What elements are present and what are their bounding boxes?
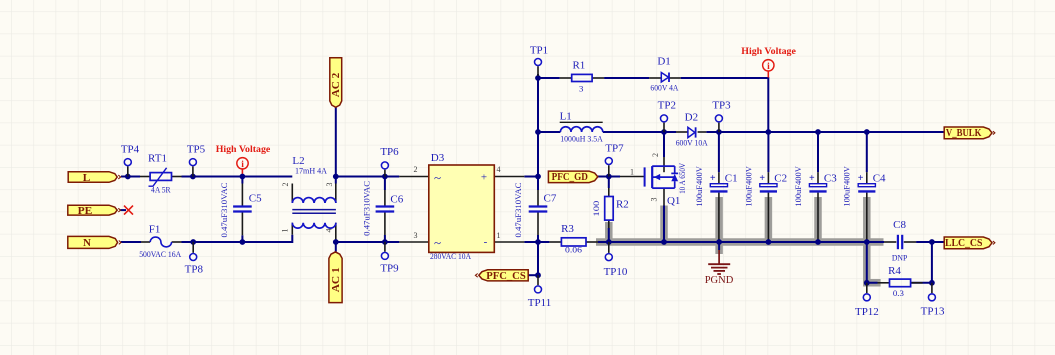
svg-text:+: + [481,172,487,184]
svg-text:AC 2: AC 2 [331,73,342,98]
svg-text:DNP: DNP [892,252,908,262]
svg-text:10 A 650V: 10 A 650V [677,162,687,194]
wire PE stub [121,209,127,211]
ground PGND [708,250,730,274]
resistor R2 [605,197,614,221]
svg-text:C3: C3 [824,173,837,185]
mosfet Q1 [645,166,679,188]
capacitor C4 [858,184,875,187]
svg-text:100uF400V: 100uF400V [743,166,753,207]
bridge rectifier D3 [429,165,495,252]
test point TP4 [127,166,129,176]
high voltage marker 2 [767,71,769,78]
svg-text:600V 4A: 600V 4A [650,82,679,92]
svg-text:2: 2 [281,183,290,187]
port LLC_CS [944,237,992,249]
svg-text:C7: C7 [544,193,557,205]
svg-text:R3: R3 [561,223,574,235]
svg-text:D1: D1 [657,56,670,68]
svg-text:-: - [484,236,488,248]
wire C8 right to LLC_CS [916,242,944,283]
svg-text:C8: C8 [893,219,906,231]
svg-text:0.47uF310VAC: 0.47uF310VAC [361,181,371,236]
svg-text:3: 3 [325,183,334,187]
svg-text:500VAC 16A: 500VAC 16A [139,249,182,259]
wire PGND stub [718,242,720,250]
wire AC_1 stub [335,242,337,252]
capacitor C8 [898,235,902,249]
port N [68,236,118,248]
svg-text:TP6: TP6 [380,146,399,158]
svg-text:0.3: 0.3 [893,288,905,298]
svg-text:RT1: RT1 [148,152,167,164]
wire R1 D1 top rail [538,78,768,132]
wire PFC_CS flag to junction [528,274,538,276]
svg-text:+: + [858,173,864,184]
port PFC_GD [548,171,597,183]
capacitor C1 [710,184,727,187]
inductor L1 [560,127,602,132]
test point TP13 [931,283,933,293]
svg-text:0.47uF310VAC: 0.47uF310VAC [513,182,523,237]
svg-text:TP4: TP4 [121,144,140,156]
wire Q1 source to bus [663,206,665,243]
svg-text:TP12: TP12 [855,306,879,318]
wire C6 leads [384,177,386,243]
wire PFC_CS net (D3 minus / shunt) [524,241,609,243]
svg-text:100uF400V: 100uF400V [694,166,704,207]
test point TP8 [192,242,194,253]
svg-text:R1: R1 [572,60,585,72]
resistor R1 [572,74,592,81]
svg-text:100uF400V: 100uF400V [793,166,803,207]
svg-text:C5: C5 [249,192,262,204]
wire PGND bus [609,241,884,243]
svg-text:i: i [241,160,244,170]
test point TP9 [384,242,386,252]
svg-text:AC 1: AC 1 [331,267,342,292]
wire TP1 vertical / center column [537,74,539,275]
svg-text:L: L [83,172,91,184]
capacitor C5 [233,207,252,212]
svg-text:D3: D3 [431,152,445,164]
port PE [68,205,117,215]
svg-text:D2: D2 [685,112,698,124]
wire bulk rail [538,131,944,133]
port AC_2 [330,58,342,108]
svg-text:High Voltage: High Voltage [216,144,271,155]
svg-text:R2: R2 [616,199,629,211]
wire N rail [121,235,399,242]
svg-text:PFC_CS: PFC_CS [486,271,526,282]
svg-text:0.47uF310VAC: 0.47uF310VAC [219,182,229,237]
svg-text:3: 3 [579,84,584,94]
wire Q1 drain drop [663,132,665,157]
svg-text:High Voltage: High Voltage [741,46,796,57]
capacitor C2 [760,184,777,187]
svg-text:F1: F1 [149,223,161,235]
wire L rail [121,176,538,178]
resistor RT1 [150,173,171,181]
svg-text:1: 1 [630,168,634,177]
svg-text:C4: C4 [873,173,886,185]
svg-text:C1: C1 [725,173,738,185]
svg-text:N: N [83,237,91,249]
resistor R4 [890,279,911,287]
no-ERC cross on PE [124,206,133,215]
fuse F1 [150,237,171,247]
wire PFC_GD to gate [598,176,620,178]
test point TP5 [192,166,194,176]
svg-text:+: + [809,173,815,184]
svg-text:3: 3 [414,231,418,240]
resistor R3 [561,238,586,246]
svg-text:3: 3 [649,198,658,202]
svg-text:C2: C2 [774,173,787,185]
svg-text:~: ~ [434,170,441,185]
svg-text:17mH 4A: 17mH 4A [295,165,328,175]
svg-text:2: 2 [651,153,660,157]
svg-text:4: 4 [325,229,334,233]
capacitor C7 [529,207,548,212]
test point TP1 [537,66,539,76]
svg-text:V_BULK: V_BULK [946,128,982,139]
svg-text:TP1: TP1 [530,45,548,57]
svg-text:100: 100 [591,200,601,217]
diode D1 [661,73,668,83]
port L [68,172,117,183]
pins (black component leads) [140,78,923,283]
test point TP3 [718,123,720,132]
svg-text:PFC_GD: PFC_GD [552,172,589,183]
test point TP2 [663,123,665,132]
svg-text:R4: R4 [888,265,901,277]
wire R4 row [867,242,932,283]
svg-text:TP7: TP7 [605,143,624,155]
test point TP7 [608,165,610,176]
svg-text:+: + [759,173,765,184]
svg-text:TP13: TP13 [921,306,945,318]
test point TP12 [866,283,868,293]
svg-text:100uF400V: 100uF400V [842,166,852,207]
test point TP11 [537,275,539,285]
svg-text:1000uH 3.5A: 1000uH 3.5A [560,133,603,143]
svg-text:2: 2 [414,165,418,174]
svg-text:0.06: 0.06 [565,245,583,255]
svg-text:TP11: TP11 [528,297,551,309]
wire electrolytic cap drops [719,132,867,172]
svg-text:C6: C6 [390,193,403,205]
svg-text:TP5: TP5 [187,144,206,156]
svg-text:Q1: Q1 [667,195,680,207]
svg-text:L1: L1 [560,110,572,122]
transformer L2 (common mode choke) [292,198,336,203]
svg-text:TP10: TP10 [604,266,628,278]
junction dots [125,174,131,180]
svg-text:TP9: TP9 [380,263,399,275]
svg-text:PE: PE [78,205,93,217]
port V_BULK [944,127,992,139]
svg-text:TP2: TP2 [658,100,676,112]
svg-text:LLC_CS: LLC_CS [945,238,983,249]
svg-text:280VAC 10A: 280VAC 10A [430,251,472,261]
high voltage marker 1 [241,168,243,176]
diode D2 [688,127,695,137]
test point TP6 [384,170,386,177]
capacitor C3 [809,184,826,187]
svg-text:4: 4 [497,165,501,174]
svg-text:600V 10A: 600V 10A [676,138,709,148]
wire C5 leads [241,177,243,243]
svg-text:1: 1 [281,229,290,233]
svg-text:i: i [767,62,770,72]
svg-text:1: 1 [497,231,501,240]
capacitor C6 [376,207,395,212]
svg-text:4A 5R: 4A 5R [151,185,171,195]
svg-text:PGND: PGND [705,275,734,286]
test point TP10 [608,242,610,253]
port AC_1 [329,252,342,303]
wire R2 leads [608,177,610,243]
PGND net highlight bus [596,197,884,283]
wire AC_2 drop [335,107,337,183]
svg-text:+: + [710,173,716,184]
port PFC_CS [479,270,528,281]
svg-text:~: ~ [434,235,441,250]
svg-text:TP8: TP8 [185,264,204,276]
svg-text:TP3: TP3 [712,100,731,112]
